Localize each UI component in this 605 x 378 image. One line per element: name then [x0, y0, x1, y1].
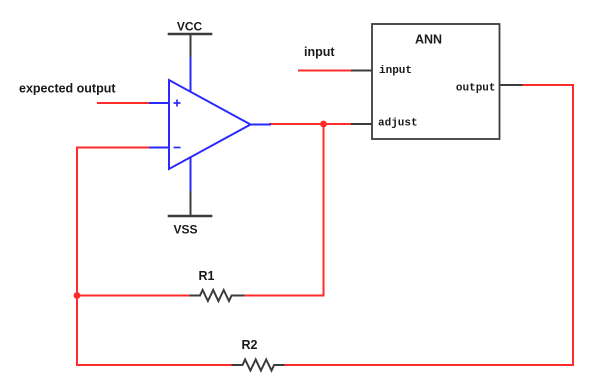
svg-text:input: input	[304, 45, 335, 59]
svg-text:adjust: adjust	[378, 118, 418, 130]
svg-text:expected output: expected output	[19, 82, 116, 96]
svg-text:ANN: ANN	[415, 33, 442, 47]
svg-text:VCC: VCC	[177, 20, 203, 34]
svg-text:VSS: VSS	[173, 223, 197, 237]
svg-text:R2: R2	[242, 338, 258, 352]
svg-text:output: output	[456, 83, 496, 95]
svg-text:R1: R1	[199, 269, 215, 283]
svg-text:input: input	[379, 65, 412, 77]
